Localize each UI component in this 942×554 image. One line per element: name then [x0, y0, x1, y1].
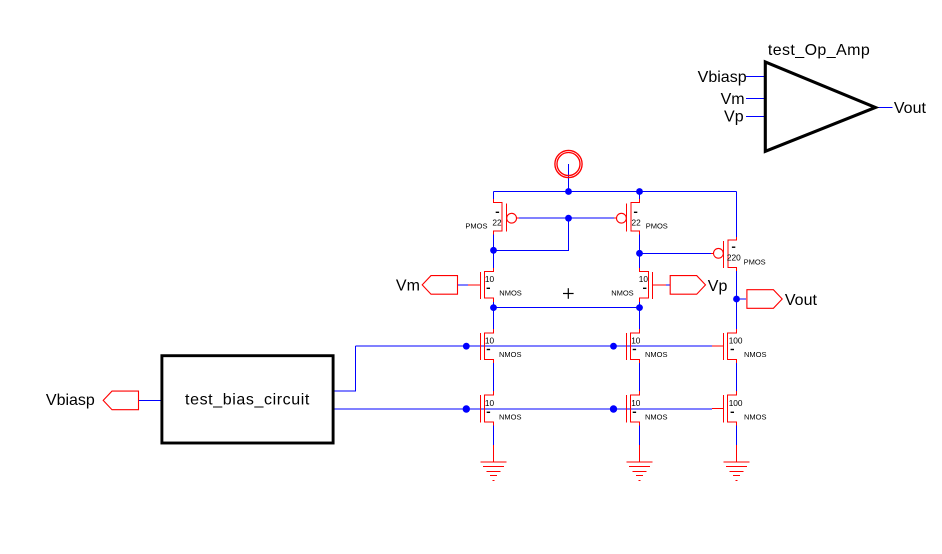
svg-text:test_Op_Amp: test_Op_Amp — [768, 42, 870, 59]
svg-text:NMOS: NMOS — [499, 288, 522, 297]
svg-text:NMOS: NMOS — [744, 412, 767, 421]
svg-text:Vm: Vm — [396, 278, 420, 295]
svg-text:Vbiasp: Vbiasp — [46, 392, 95, 409]
svg-text:Vbiasp: Vbiasp — [698, 69, 747, 86]
svg-text:NMOS: NMOS — [744, 350, 767, 359]
svg-text:Vout: Vout — [894, 100, 927, 117]
svg-text:NMOS: NMOS — [499, 412, 522, 421]
svg-text:NMOS: NMOS — [611, 288, 634, 297]
svg-text:PMOS: PMOS — [646, 221, 668, 230]
svg-text:NMOS: NMOS — [499, 350, 522, 359]
svg-text:Vout: Vout — [785, 292, 818, 309]
svg-text:10: 10 — [485, 335, 495, 345]
svg-text:Vp: Vp — [708, 278, 728, 295]
svg-text:PMOS: PMOS — [744, 258, 766, 267]
svg-text:100: 100 — [729, 335, 743, 345]
svg-text:10: 10 — [631, 335, 641, 345]
svg-text:NMOS: NMOS — [645, 350, 668, 359]
svg-text:22: 22 — [632, 218, 642, 228]
svg-text:NMOS: NMOS — [645, 412, 668, 421]
svg-text:PMOS: PMOS — [465, 221, 487, 230]
svg-text:test_bias_circuit: test_bias_circuit — [185, 392, 310, 409]
svg-text:10: 10 — [485, 274, 495, 284]
svg-text:10: 10 — [631, 398, 641, 408]
svg-text:22: 22 — [492, 218, 502, 228]
svg-text:10: 10 — [485, 398, 495, 408]
svg-text:220: 220 — [727, 253, 741, 263]
svg-text:10: 10 — [639, 274, 649, 284]
svg-text:100: 100 — [729, 398, 743, 408]
svg-text:Vp: Vp — [724, 109, 744, 126]
svg-text:Vm: Vm — [721, 91, 745, 108]
